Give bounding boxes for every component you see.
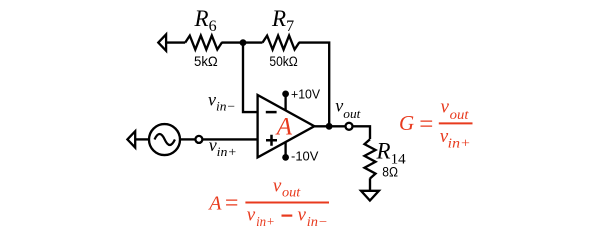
wire [166, 41, 185, 43]
svg-text:-10V: -10V [291, 148, 319, 163]
svg-text:A: A [275, 114, 293, 141]
op-amp inverting input symbol [266, 111, 277, 114]
svg-text:=: = [225, 191, 239, 217]
resistor R7 [263, 36, 300, 50]
node -10V supply dot [282, 154, 289, 161]
terminal node vin+ (open circle) [195, 136, 202, 143]
wire (feedback to inverting input) [243, 43, 258, 113]
svg-text:5kΩ: 5kΩ [194, 54, 218, 69]
svg-text:50kΩ: 50kΩ [269, 53, 298, 69]
AC source V1 [149, 124, 180, 155]
wire [221, 41, 243, 43]
op-amp non-inverting input symbol [266, 135, 277, 146]
svg-text:G: G [399, 111, 414, 135]
wire (to load R14) [353, 126, 371, 139]
node junction A (R6/R7/feedback) [240, 39, 247, 46]
svg-text:out: out [282, 185, 302, 200]
svg-text:+10V: +10V [291, 87, 320, 102]
wire [135, 138, 148, 140]
wire (to non-inverting input) [202, 138, 257, 140]
svg-text:in+: in+ [256, 214, 275, 229]
ground [361, 191, 379, 201]
wire (negative supply stub) [284, 142, 286, 158]
formula G = vout/vin+ [399, 97, 473, 151]
resistor R6 [185, 36, 222, 50]
svg-text:A: A [207, 192, 222, 214]
resistor R14 [365, 139, 376, 178]
node output junction [326, 123, 333, 130]
svg-text:=: = [419, 111, 433, 138]
wire (R7 to output node) [299, 43, 330, 127]
svg-text:in−: in− [307, 214, 328, 229]
svg-text:v: v [247, 205, 256, 226]
wire (positive supply stub) [284, 94, 286, 111]
svg-text:v: v [298, 205, 307, 226]
node +10V supply dot [282, 91, 289, 98]
terminal arrow T2 (source) [127, 131, 135, 147]
wire (R14 to ground) [369, 178, 371, 191]
wire [243, 41, 263, 43]
formula A = vout/(vin+ - vin-) [207, 176, 329, 230]
wire (op-amp output) [314, 125, 345, 127]
terminal node vout (open circle) [346, 123, 353, 130]
op-amp U1 [258, 95, 315, 157]
terminal arrow T1 (top left) [158, 34, 166, 50]
wire [180, 138, 195, 140]
AC source sine symbol [155, 134, 175, 145]
svg-text:v: v [273, 176, 282, 197]
svg-text:v: v [441, 97, 450, 118]
svg-text:out: out [450, 107, 470, 122]
svg-text:8Ω: 8Ω [382, 164, 398, 180]
svg-text:in+: in+ [448, 135, 471, 150]
